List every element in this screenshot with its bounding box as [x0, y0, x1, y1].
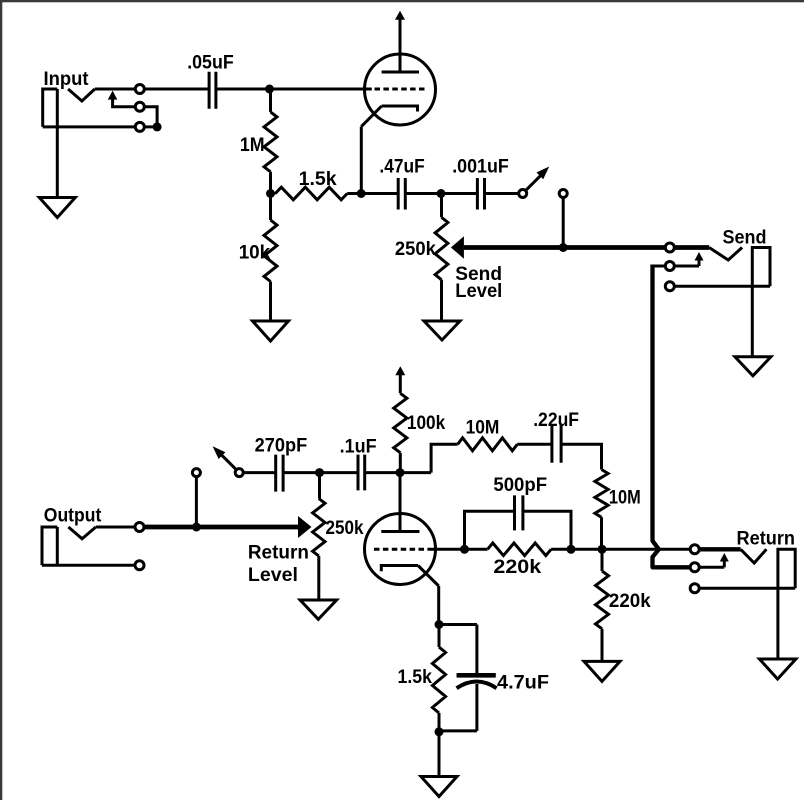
svg-text:220k: 220k — [493, 557, 541, 578]
svg-text:250k: 250k — [395, 239, 436, 260]
svg-text:270pF: 270pF — [255, 436, 308, 457]
svg-text:Input: Input — [44, 69, 90, 90]
svg-text:100k: 100k — [407, 413, 446, 434]
svg-text:.47uF: .47uF — [379, 156, 424, 177]
svg-text:Return: Return — [737, 529, 796, 550]
svg-text:10M: 10M — [466, 418, 500, 439]
svg-text:220k: 220k — [609, 591, 651, 612]
svg-text:250k: 250k — [326, 518, 364, 539]
svg-text:1M: 1M — [240, 135, 265, 156]
svg-text:.1uF: .1uF — [340, 436, 377, 457]
svg-text:.05uF: .05uF — [187, 53, 234, 74]
svg-text:4.7uF: 4.7uF — [497, 673, 549, 694]
svg-text:Level: Level — [248, 565, 298, 586]
svg-text:10k: 10k — [239, 242, 271, 263]
svg-text:Return: Return — [248, 543, 309, 564]
svg-text:10M: 10M — [609, 487, 641, 508]
svg-text:500pF: 500pF — [493, 475, 547, 496]
svg-text:Output: Output — [44, 505, 102, 526]
svg-text:.001uF: .001uF — [452, 156, 509, 177]
svg-text:Level: Level — [455, 281, 502, 302]
svg-text:1.5k: 1.5k — [398, 667, 433, 688]
svg-text:.22uF: .22uF — [533, 410, 579, 431]
svg-text:1.5k: 1.5k — [299, 169, 337, 190]
svg-text:Send: Send — [723, 227, 767, 248]
